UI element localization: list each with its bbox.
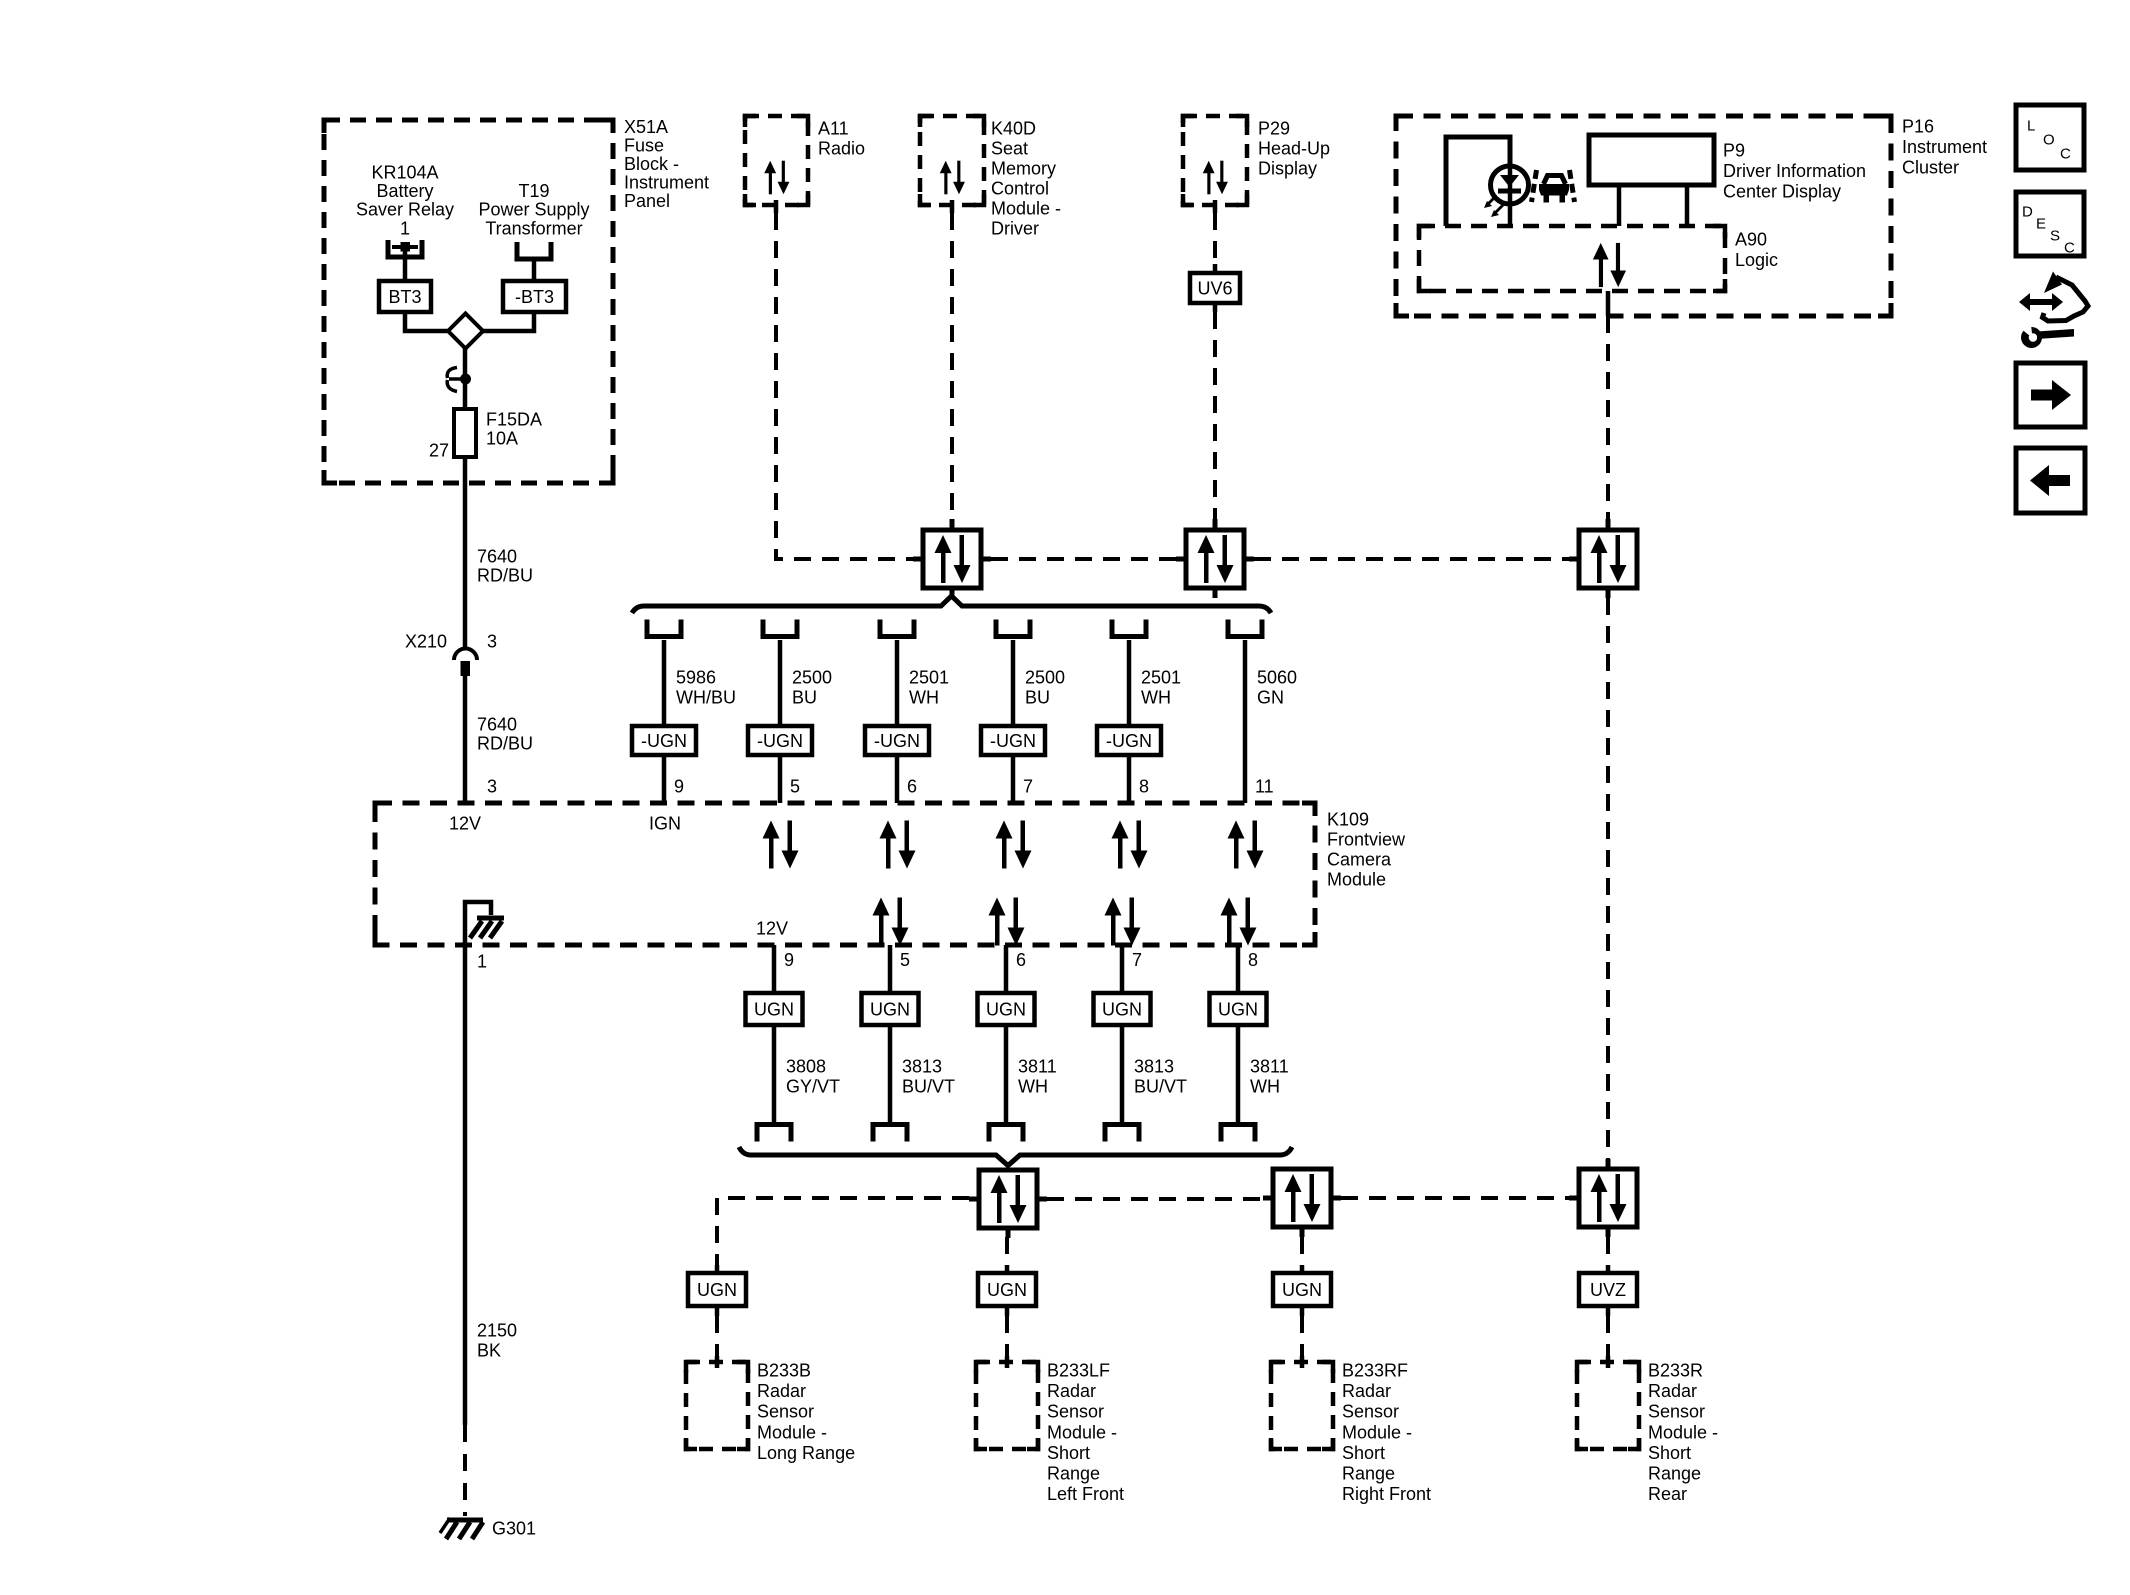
- connector terminal (wire 2500 BU): [996, 620, 1030, 637]
- svg-text:7640: 7640: [477, 547, 517, 567]
- junction diamond: [448, 314, 483, 349]
- splice clip symbol: [447, 368, 471, 392]
- svg-text:Short: Short: [1648, 1443, 1691, 1463]
- connector terminal (wire 3811): [1221, 1125, 1255, 1142]
- icon wrench / repair instructions: [2019, 272, 2088, 349]
- svg-text:RD/BU: RD/BU: [477, 566, 533, 586]
- connector terminal (wire 3813): [1105, 1125, 1139, 1142]
- svg-text:A90: A90: [1735, 230, 1767, 250]
- svg-text:6: 6: [1016, 950, 1026, 970]
- svg-text:7: 7: [1023, 777, 1033, 797]
- wire 3808 GY/VT: [772, 1025, 777, 1122]
- fuse F15DA 10A (position 27): [429, 409, 542, 461]
- svg-text:UV6: UV6: [1197, 279, 1232, 299]
- wire 7640 RD/BU (lower): [463, 668, 468, 803]
- splice pack UGN: [978, 993, 1035, 1025]
- svg-text:3811: 3811: [1018, 1057, 1057, 1077]
- wire 3811 WH: [1004, 1025, 1009, 1122]
- connector UGN (B233RF): [1273, 1273, 1331, 1306]
- wire display leg right: [1685, 185, 1690, 226]
- wire (serial data) UGN to B233B: [715, 1306, 720, 1316]
- serial data junction square S2: [1176, 519, 1254, 598]
- svg-text:D: D: [2022, 204, 2033, 221]
- wire 3813 BU/VT: [1120, 1025, 1125, 1122]
- svg-text:Module -: Module -: [991, 199, 1061, 219]
- wire K109 pin 5 to UGN: [888, 945, 893, 993]
- svg-text:-UGN: -UGN: [757, 731, 803, 751]
- svg-text:B233B: B233B: [757, 1361, 811, 1381]
- wire -BT3 to junction: [481, 312, 534, 331]
- serial data junction square S4: [969, 1170, 1047, 1238]
- svg-text:Rear: Rear: [1648, 1484, 1687, 1504]
- wire to K109 pin 7: [1011, 755, 1016, 803]
- serial data junction square S3: [1569, 519, 1637, 598]
- svg-text:8: 8: [1248, 950, 1258, 970]
- splice pack UGN: [746, 993, 803, 1025]
- svg-text:UGN: UGN: [870, 1000, 910, 1020]
- wire (serial data) bus to B233B: [717, 1198, 969, 1265]
- wire (serial data) bus S5-S6: [1341, 1196, 1569, 1200]
- svg-text:Panel: Panel: [624, 191, 670, 211]
- svg-text:-UGN: -UGN: [990, 731, 1036, 751]
- svg-text:UGN: UGN: [1102, 1000, 1142, 1020]
- svg-text:UGN: UGN: [987, 1280, 1027, 1300]
- module P29 Head-Up Display (dashed box): [1183, 116, 1247, 205]
- svg-text:Transformer: Transformer: [485, 218, 582, 238]
- svg-text:BK: BK: [477, 1341, 501, 1361]
- wire to K109 pin 6: [895, 755, 900, 803]
- wire 2500 BU: [778, 640, 783, 726]
- wire K109 pin 6 to UGN: [1004, 945, 1009, 993]
- svg-text:3: 3: [487, 777, 497, 797]
- wire (serial data) to UGN above B233B: [715, 1265, 720, 1273]
- wire (serial data) UGN to B233RF: [1300, 1306, 1305, 1316]
- lane departure car icon: [1532, 170, 1575, 203]
- svg-text:Module -: Module -: [757, 1422, 827, 1442]
- wire to G301 (dashed): [463, 1425, 467, 1516]
- svg-text:Module -: Module -: [1047, 1422, 1117, 1442]
- svg-text:Radio: Radio: [818, 139, 865, 159]
- wire to K109 pin 5: [778, 755, 783, 803]
- svg-text:UGN: UGN: [1218, 1000, 1258, 1020]
- svg-text:Head-Up: Head-Up: [1258, 139, 1330, 159]
- svg-text:WH: WH: [1250, 1077, 1280, 1097]
- svg-text:BU/VT: BU/VT: [902, 1077, 955, 1097]
- svg-text:-UGN: -UGN: [874, 731, 920, 751]
- svg-text:A11: A11: [818, 119, 849, 139]
- wire K109 pin 7 to UGN: [1120, 945, 1125, 993]
- svg-text:Battery: Battery: [376, 181, 433, 201]
- module B233R (dashed box): [1577, 1362, 1639, 1449]
- connector terminal (wire 3811): [989, 1125, 1023, 1142]
- svg-text:B233R: B233R: [1648, 1361, 1703, 1381]
- wire (serial data) K40D to S1: [950, 213, 954, 519]
- splice pack UGN: [1094, 993, 1151, 1025]
- svg-text:C: C: [2060, 146, 2071, 163]
- svg-text:Sensor: Sensor: [1342, 1402, 1399, 1422]
- svg-text:Instrument: Instrument: [1902, 137, 1987, 157]
- svg-text:Seat: Seat: [991, 139, 1028, 159]
- svg-text:Module -: Module -: [1648, 1422, 1718, 1442]
- svg-text:6: 6: [907, 777, 917, 797]
- svg-text:Memory: Memory: [991, 159, 1056, 179]
- svg-text:Short: Short: [1342, 1443, 1385, 1463]
- connector BT3: [379, 281, 431, 312]
- svg-text:KR104A: KR104A: [371, 163, 438, 183]
- svg-text:1: 1: [400, 218, 410, 238]
- module K40D Seat Memory Control Module - Driver (dashed box): [920, 116, 984, 205]
- wire (serial data) A90 to S3: [1606, 291, 1611, 316]
- svg-text:UGN: UGN: [986, 1000, 1026, 1020]
- svg-text:Radar: Radar: [1047, 1381, 1096, 1401]
- svg-text:F15DA: F15DA: [486, 410, 542, 430]
- svg-text:WH: WH: [1018, 1077, 1048, 1097]
- serial data junction square S6: [1569, 1159, 1637, 1237]
- connector terminal T19: [517, 242, 551, 259]
- svg-text:Right Front: Right Front: [1342, 1484, 1431, 1504]
- wire T19 to -BT3: [532, 261, 537, 282]
- connector terminal (wire 2501 WH): [1112, 620, 1146, 637]
- svg-text:12V: 12V: [449, 814, 481, 834]
- svg-text:WH: WH: [909, 688, 939, 708]
- wire display leg left: [1617, 185, 1622, 226]
- module A11 Radio (dashed box): [745, 116, 808, 205]
- wire (serial data) UGN to B233LF: [1005, 1306, 1010, 1316]
- svg-text:RD/BU: RD/BU: [477, 734, 533, 754]
- svg-text:3813: 3813: [902, 1057, 942, 1077]
- svg-text:Display: Display: [1258, 159, 1317, 179]
- svg-text:8: 8: [1139, 777, 1149, 797]
- svg-text:-UGN: -UGN: [641, 731, 687, 751]
- icon arrow left box: [2016, 448, 2085, 513]
- svg-text:-BT3: -BT3: [515, 287, 554, 307]
- svg-text:11: 11: [1255, 777, 1274, 797]
- svg-text:2501: 2501: [909, 668, 949, 688]
- connector -BT3: [503, 281, 566, 312]
- harness brace (top group): [632, 596, 1271, 613]
- module B233LF (dashed box): [976, 1362, 1038, 1449]
- wire 2150 BK: [463, 945, 468, 1425]
- svg-text:BT3: BT3: [388, 287, 421, 307]
- connector terminal KR104A pin 1: [388, 240, 422, 257]
- wire (serial data) bus S1-S2: [991, 557, 1176, 561]
- svg-text:2500: 2500: [1025, 668, 1065, 688]
- connector X210 pin 3: [405, 632, 497, 677]
- svg-text:BU: BU: [1025, 688, 1050, 708]
- svg-text:5: 5: [900, 950, 910, 970]
- telltale indicator bracket: [1446, 137, 1510, 226]
- svg-text:L: L: [2027, 118, 2035, 135]
- svg-text:3: 3: [487, 632, 497, 652]
- svg-text:B233RF: B233RF: [1342, 1361, 1408, 1381]
- svg-text:Left Front: Left Front: [1047, 1484, 1124, 1504]
- svg-text:P9: P9: [1723, 141, 1745, 161]
- svg-text:7: 7: [1132, 950, 1142, 970]
- wire (serial data) P29 to UV6: [1213, 213, 1217, 264]
- serial data arrows in A11: [764, 161, 789, 195]
- svg-text:B233LF: B233LF: [1047, 1361, 1110, 1381]
- wire 3813 BU/VT: [888, 1025, 893, 1122]
- svg-text:Radar: Radar: [757, 1381, 806, 1401]
- svg-text:3811: 3811: [1250, 1057, 1289, 1077]
- svg-text:Camera: Camera: [1327, 850, 1392, 870]
- splice pack -UGN: [865, 726, 929, 755]
- svg-text:Range: Range: [1342, 1464, 1395, 1484]
- svg-text:X51A: X51A: [624, 117, 668, 137]
- splice pack -UGN: [632, 726, 696, 755]
- wire (serial data) UVZ to B233R: [1606, 1306, 1611, 1316]
- wire 2501 WH: [1127, 640, 1132, 726]
- wire to K109 pin 9: [662, 755, 667, 803]
- svg-text:Center Display: Center Display: [1723, 182, 1841, 202]
- wire 2501 WH: [895, 640, 900, 726]
- svg-text:S: S: [2050, 228, 2060, 245]
- svg-text:9: 9: [674, 777, 684, 797]
- serial data junction square S1: [913, 519, 991, 598]
- svg-text:UGN: UGN: [754, 1000, 794, 1020]
- display P9 Driver Information Center Display: [1589, 135, 1714, 185]
- icon DESC box: [2016, 192, 2084, 257]
- svg-text:Range: Range: [1047, 1464, 1100, 1484]
- wire BT3 to junction: [405, 312, 450, 331]
- svg-text:7640: 7640: [477, 715, 517, 735]
- svg-text:5986: 5986: [676, 668, 716, 688]
- svg-text:Range: Range: [1648, 1464, 1701, 1484]
- svg-text:Sensor: Sensor: [757, 1402, 814, 1422]
- module X51A Fuse Block - Instrument Panel (dashed box): [324, 120, 613, 483]
- splice pack UGN: [862, 993, 919, 1025]
- svg-text:3813: 3813: [1134, 1057, 1174, 1077]
- svg-text:2501: 2501: [1141, 668, 1181, 688]
- svg-text:Module: Module: [1327, 870, 1386, 890]
- svg-text:C: C: [2064, 240, 2075, 257]
- svg-text:3808: 3808: [786, 1057, 826, 1077]
- svg-text:Cluster: Cluster: [1902, 158, 1959, 178]
- svg-text:P16: P16: [1902, 117, 1934, 137]
- svg-text:5060: 5060: [1257, 668, 1297, 688]
- wire (serial data) A11 to bus: [776, 213, 913, 559]
- svg-text:Logic: Logic: [1735, 250, 1778, 270]
- connector terminal (wire 5986 WH/BU): [647, 620, 681, 637]
- svg-text:GN: GN: [1257, 688, 1284, 708]
- connector UV6: [1190, 273, 1240, 303]
- serial data arrows in A90: [1593, 243, 1626, 287]
- svg-text:Short: Short: [1047, 1443, 1090, 1463]
- splice pack -UGN: [981, 726, 1045, 755]
- svg-text:2500: 2500: [792, 668, 832, 688]
- svg-text:9: 9: [784, 950, 794, 970]
- connector UGN (B233LF): [978, 1273, 1036, 1306]
- harness brace (bottom group): [739, 1147, 1292, 1166]
- svg-text:Sensor: Sensor: [1648, 1402, 1705, 1422]
- wire (serial data) bus S4-S5: [1047, 1197, 1263, 1201]
- module B233RF (dashed box): [1271, 1362, 1333, 1449]
- connector UVZ (B233R): [1579, 1273, 1637, 1306]
- telltale LED indicator: [1484, 164, 1529, 226]
- connector terminal (wire 5060 GN): [1228, 620, 1262, 637]
- svg-text:BU: BU: [792, 688, 817, 708]
- svg-text:BU/VT: BU/VT: [1134, 1077, 1187, 1097]
- module K109 Frontview Camera Module (dashed box): [375, 803, 1315, 945]
- svg-text:Driver: Driver: [991, 219, 1039, 239]
- svg-text:P29: P29: [1258, 119, 1290, 139]
- wire (serial data) to UGN above B233LF: [1005, 1237, 1009, 1265]
- svg-text:Radar: Radar: [1342, 1381, 1391, 1401]
- svg-text:Instrument: Instrument: [624, 173, 709, 193]
- svg-text:Sensor: Sensor: [1047, 1402, 1104, 1422]
- svg-text:Control: Control: [991, 179, 1049, 199]
- wire 2500 BU: [1011, 640, 1016, 726]
- connector terminal (wire 2501 WH): [880, 620, 914, 637]
- svg-text:Power Supply: Power Supply: [478, 200, 589, 220]
- wire (serial data) UV6 to S2: [1213, 303, 1218, 312]
- svg-text:Module -: Module -: [1342, 1422, 1412, 1442]
- svg-text:X210: X210: [405, 632, 447, 652]
- ground G301: [440, 1518, 536, 1539]
- connector terminal (wire 2500 BU): [763, 620, 797, 637]
- serial data junction square S5: [1263, 1169, 1341, 1237]
- wire (serial data) bus S2-S3: [1254, 557, 1569, 561]
- svg-text:T19: T19: [518, 181, 549, 201]
- wire (serial data) S3 to S6: [1606, 598, 1610, 1160]
- svg-text:10A: 10A: [486, 429, 518, 449]
- svg-text:5: 5: [790, 777, 800, 797]
- svg-text:WH/BU: WH/BU: [676, 688, 736, 708]
- svg-text:Frontview: Frontview: [1327, 830, 1406, 850]
- serial data arrows inside K109 (upper row): [763, 821, 799, 869]
- svg-text:G301: G301: [492, 1519, 536, 1539]
- wire relay to BT3: [403, 247, 408, 282]
- serial data arrows inside K109 (lower row): [873, 898, 909, 946]
- wire 3811 WH: [1236, 1025, 1241, 1122]
- wire 5060 GN: [1243, 640, 1248, 803]
- icon LOC box: [2016, 105, 2084, 170]
- svg-text:27: 27: [429, 441, 449, 461]
- wire (serial data) to UVZ above B233R: [1606, 1237, 1610, 1265]
- svg-text:K40D: K40D: [991, 119, 1036, 139]
- svg-text:K109: K109: [1327, 810, 1369, 830]
- svg-text:Radar: Radar: [1648, 1381, 1697, 1401]
- svg-text:GY/VT: GY/VT: [786, 1077, 840, 1097]
- svg-text:Block -: Block -: [624, 154, 679, 174]
- svg-text:-UGN: -UGN: [1106, 731, 1152, 751]
- wire to K109 pin 8: [1127, 755, 1132, 803]
- module P16 Instrument Cluster (dashed box): [1396, 116, 1891, 316]
- connector terminal (wire 3808): [757, 1125, 791, 1142]
- wire (serial data) to UGN above B233RF: [1300, 1237, 1304, 1265]
- ground internal to K109: [465, 902, 504, 944]
- serial data arrows in K40D: [940, 161, 965, 195]
- wire K109 pin 8 to UGN: [1236, 945, 1241, 993]
- wire 5986 WH/BU: [662, 640, 667, 726]
- svg-text:O: O: [2043, 132, 2055, 149]
- connector UGN (B233B): [688, 1273, 746, 1306]
- module B233B (dashed box): [686, 1362, 748, 1449]
- wire K109 pin 9 to UGN: [772, 945, 777, 993]
- svg-text:WH: WH: [1141, 688, 1171, 708]
- svg-text:12V: 12V: [756, 919, 788, 939]
- splice pack -UGN: [748, 726, 812, 755]
- wire junction to fuse: [463, 348, 468, 409]
- serial data arrows in P29: [1203, 161, 1228, 195]
- svg-text:E: E: [2036, 216, 2046, 233]
- connector terminal (wire 3813): [873, 1125, 907, 1142]
- module A90 Logic (dashed box): [1419, 226, 1725, 291]
- splice pack -UGN: [1097, 726, 1161, 755]
- svg-text:2150: 2150: [477, 1321, 517, 1341]
- svg-text:UGN: UGN: [1282, 1280, 1322, 1300]
- svg-text:Saver Relay: Saver Relay: [356, 200, 454, 220]
- svg-text:Long Range: Long Range: [757, 1443, 855, 1463]
- splice pack UGN: [1210, 993, 1267, 1025]
- svg-text:Driver Information: Driver Information: [1723, 161, 1866, 181]
- svg-text:UVZ: UVZ: [1590, 1280, 1626, 1300]
- svg-text:1: 1: [477, 952, 487, 972]
- wire 7640 RD/BU (upper): [463, 457, 468, 648]
- icon arrow right box: [2016, 363, 2085, 427]
- svg-text:Fuse: Fuse: [624, 136, 664, 156]
- svg-text:IGN: IGN: [649, 814, 681, 834]
- svg-text:UGN: UGN: [697, 1280, 737, 1300]
